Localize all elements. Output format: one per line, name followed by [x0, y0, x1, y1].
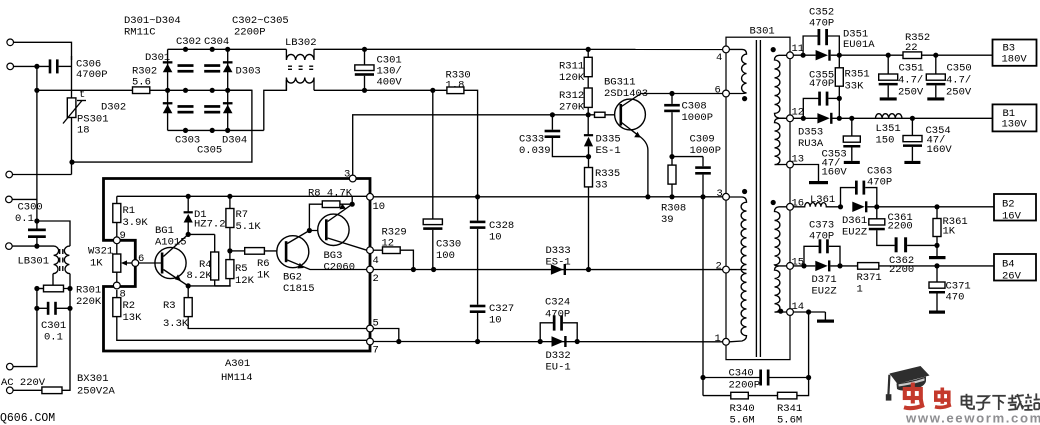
- phase dot S2 top: [771, 200, 776, 205]
- diode D304: [223, 105, 233, 114]
- zener D1: [187, 196, 189, 213]
- resistor R302: [133, 87, 150, 94]
- wire pin11 row: [793, 54, 815, 56]
- svg-text:R2: R2: [123, 300, 136, 312]
- node dots R301: [34, 286, 39, 291]
- svg-text:C308: C308: [682, 101, 707, 113]
- svg-text:RM11C: RM11C: [124, 27, 156, 39]
- wire collector node: [188, 285, 231, 287]
- svg-text:470P: 470P: [809, 78, 834, 90]
- wire D1 node to R4: [188, 233, 215, 235]
- wire top bus: [314, 48, 723, 50]
- capacitor C300: [28, 229, 46, 232]
- svg-text:R335: R335: [595, 168, 620, 180]
- svg-text:C309: C309: [690, 134, 715, 146]
- pin 9: [113, 237, 120, 244]
- svg-text:3.9K: 3.9K: [123, 217, 149, 229]
- svg-text:2: 2: [716, 261, 722, 273]
- resistor R6: [230, 250, 245, 252]
- output box B3: [993, 40, 1037, 66]
- BG2 emitter diag: [287, 260, 366, 270]
- transformer core: [755, 40, 757, 357]
- svg-text:W321: W321: [88, 246, 113, 258]
- svg-text:C330: C330: [436, 239, 461, 251]
- svg-text:3: 3: [344, 169, 350, 181]
- svg-text:A1015: A1015: [155, 237, 187, 249]
- primary winding P2 pins 3-2-1: [729, 197, 746, 342]
- node dot R7/R5/R6: [227, 248, 232, 253]
- wire pin10 line to B301 pin3: [373, 196, 722, 198]
- svg-text:6: 6: [715, 85, 721, 97]
- secondary winding S1 pins 11-12-13: [775, 55, 787, 164]
- pin 13 B301: [787, 161, 794, 168]
- watermark text 电子下载站: [962, 393, 1040, 410]
- svg-text:C1815: C1815: [283, 283, 315, 295]
- wire R2 to pin7 rail: [117, 317, 367, 341]
- svg-text:100: 100: [436, 250, 455, 262]
- svg-text:D333: D333: [546, 245, 571, 257]
- svg-text:8.2K: 8.2K: [187, 270, 213, 282]
- svg-text:10: 10: [489, 315, 502, 327]
- wire to R302: [37, 89, 133, 91]
- node dot R302 line: [34, 88, 39, 93]
- resistor R361: [936, 207, 938, 219]
- svg-text:10: 10: [489, 232, 502, 244]
- svg-text:18: 18: [77, 125, 90, 137]
- capacitor C328: [477, 197, 479, 221]
- svg-text:3: 3: [717, 188, 723, 200]
- terminal T7: [7, 387, 14, 394]
- pin 15 B301: [787, 263, 794, 270]
- resistor R7: [229, 196, 231, 208]
- svg-text:22: 22: [905, 42, 918, 54]
- svg-text:R301: R301: [76, 285, 101, 297]
- svg-text:1: 1: [857, 284, 863, 296]
- svg-text:26V: 26V: [1002, 271, 1022, 283]
- pin 4 B301: [723, 46, 730, 53]
- wire pin2 tap: [729, 269, 746, 271]
- wire pin12 row: [793, 117, 817, 119]
- svg-text:12K: 12K: [235, 275, 255, 287]
- node dot D1 bottom: [186, 232, 191, 237]
- resistor R340: [703, 395, 731, 397]
- wire bridge bottom to LB302 lower winding: [264, 80, 287, 130]
- svg-text:www.eeworm.com: www.eeworm.com: [905, 411, 1040, 425]
- pin 1 B301: [723, 338, 730, 345]
- node dots B3 row: [886, 53, 891, 58]
- svg-text:HM114: HM114: [221, 372, 253, 384]
- node dot R8 right: [350, 202, 355, 207]
- node dot AC return: [69, 160, 74, 165]
- capacitor C304: [204, 64, 220, 67]
- svg-text:RU3A: RU3A: [798, 138, 824, 150]
- node dot BG3 base: [307, 228, 312, 233]
- node dot BG1 collector: [186, 283, 191, 288]
- wire bridge mid row: [168, 89, 252, 91]
- wire left vertical bus: [36, 66, 38, 221]
- svg-text:150: 150: [876, 135, 895, 147]
- node dot C308 bottom: [669, 154, 674, 159]
- phase dot P2: [742, 189, 747, 194]
- BG1 collector down: [163, 270, 188, 286]
- svg-text:B2: B2: [1002, 199, 1015, 211]
- diode D351: [816, 50, 828, 60]
- svg-text:BX301: BX301: [77, 373, 109, 385]
- resistor R335: [588, 157, 590, 168]
- svg-text:2: 2: [373, 273, 379, 285]
- wire pin7 line to B301 pin1: [373, 341, 722, 343]
- svg-text:D361: D361: [842, 215, 867, 227]
- svg-text:C324: C324: [545, 297, 570, 309]
- capacitor C350: [935, 55, 937, 74]
- svg-text:1K: 1K: [90, 258, 103, 270]
- svg-text:C340: C340: [729, 368, 754, 380]
- node dots C301 0.1: [34, 306, 39, 311]
- svg-text:4.7/: 4.7/: [946, 75, 971, 87]
- svg-text:R351: R351: [845, 69, 870, 81]
- watermark graduation cap: [890, 366, 930, 384]
- svg-text:R340: R340: [730, 403, 755, 415]
- transformer B301 outline: [726, 37, 790, 359]
- phase dot S2 bottom: [778, 309, 783, 314]
- svg-text:C302~C305: C302~C305: [232, 15, 289, 27]
- node dot D335 anode: [586, 154, 591, 159]
- svg-text:180V: 180V: [1002, 54, 1028, 66]
- svg-text:0.1: 0.1: [44, 332, 63, 344]
- svg-text:BG311: BG311: [604, 77, 636, 89]
- pin 6 B301: [723, 90, 730, 97]
- svg-text:1.8: 1.8: [446, 80, 465, 92]
- BG311 emitter: [622, 123, 648, 197]
- diode D371: [815, 261, 827, 271]
- secondary winding S2 pins 16-15-14: [775, 207, 787, 312]
- svg-text:5.6M: 5.6M: [730, 415, 755, 425]
- capacitor C308: [669, 91, 674, 96]
- wire right column down to fuse: [62, 289, 70, 391]
- svg-text:L351: L351: [876, 123, 901, 135]
- capacitor C303: [178, 105, 194, 108]
- svg-text:470P: 470P: [867, 177, 892, 189]
- node dot D1 top: [186, 194, 191, 199]
- wire BG3 base: [309, 230, 326, 232]
- svg-text:250V: 250V: [898, 87, 924, 99]
- capacitor C362: [895, 237, 898, 252]
- svg-text:C351: C351: [899, 63, 924, 75]
- wire bottom bus: [314, 89, 447, 91]
- svg-text:ES-1: ES-1: [546, 257, 571, 269]
- wire left column down to AC terminal: [13, 289, 37, 367]
- svg-text:160V: 160V: [822, 167, 848, 179]
- diode D353: [817, 113, 829, 123]
- svg-text:R312: R312: [559, 90, 584, 102]
- svg-text:16: 16: [792, 198, 805, 210]
- svg-text:R6: R6: [257, 258, 270, 270]
- svg-text:D353: D353: [798, 127, 823, 139]
- wire bridge bottom rail: [168, 129, 264, 131]
- resistor R308: [671, 157, 673, 166]
- svg-text:14: 14: [792, 301, 805, 313]
- svg-text:B301: B301: [750, 26, 775, 38]
- svg-text:C301: C301: [41, 320, 66, 332]
- wire C340 left rail: [702, 197, 704, 396]
- svg-text:A301: A301: [225, 358, 250, 370]
- svg-text:R308: R308: [661, 203, 686, 215]
- svg-text:4: 4: [716, 52, 722, 64]
- pin 6: [132, 260, 139, 267]
- phase dot P1: [742, 96, 747, 101]
- resistor R341: [778, 392, 797, 399]
- wire PS301 down to AC node: [71, 118, 73, 175]
- capacitor C301 0.1: [37, 307, 48, 309]
- diode D303: [223, 64, 233, 73]
- watermark 虫 char 2: [935, 388, 951, 408]
- ferrite bead base: [595, 112, 606, 117]
- wire AC return to bridge: [72, 90, 252, 162]
- wire C306 right vertical down to PS301: [71, 56, 73, 98]
- svg-text:39: 39: [661, 214, 674, 226]
- svg-text:BG3: BG3: [324, 250, 343, 262]
- svg-text:BG2: BG2: [283, 272, 302, 284]
- diode D302: [163, 105, 173, 114]
- svg-text:250V: 250V: [946, 87, 972, 99]
- svg-text:R371: R371: [857, 272, 882, 284]
- node dots pin2 line: [411, 267, 416, 272]
- svg-text:4.7/: 4.7/: [898, 75, 923, 87]
- node dots bridge top: [183, 47, 188, 52]
- wire T2 to C306 node: [14, 65, 50, 67]
- node dots C301: [362, 47, 367, 52]
- svg-text:1000P: 1000P: [682, 112, 714, 124]
- pin 12 B301: [787, 115, 794, 122]
- thermistor PS301: [67, 98, 76, 118]
- svg-text:250V2A: 250V2A: [77, 386, 116, 398]
- wire pin5 to pin7 line: [373, 329, 398, 342]
- resistor R311: [586, 47, 591, 52]
- svg-text:R5: R5: [235, 263, 248, 275]
- svg-text:270K: 270K: [559, 102, 585, 114]
- terminal T2: [7, 63, 14, 70]
- svg-text:D302: D302: [101, 102, 126, 114]
- pin 16 B301: [787, 203, 794, 210]
- wire pin14 row and ground: [793, 311, 825, 313]
- pin 7: [367, 338, 374, 345]
- capacitor C353: [851, 118, 853, 136]
- svg-text:B4: B4: [1002, 259, 1015, 271]
- ground pin13: [793, 165, 818, 182]
- capacitor C351: [887, 55, 889, 74]
- svg-text:L361: L361: [810, 194, 835, 206]
- resistor R5: [229, 251, 231, 260]
- capacitor C305: [204, 105, 220, 108]
- svg-text:10: 10: [373, 201, 386, 213]
- svg-text:1: 1: [715, 333, 721, 345]
- wire C300 top to LB301 right: [37, 221, 70, 246]
- diode D361: [852, 202, 864, 212]
- capacitor C361: [876, 207, 878, 219]
- svg-text:BG1: BG1: [155, 225, 174, 237]
- resistor R4: [214, 234, 216, 252]
- svg-text:C2060: C2060: [324, 262, 356, 274]
- svg-text:470P: 470P: [545, 309, 570, 321]
- svg-text:13: 13: [792, 154, 805, 166]
- svg-text:R1: R1: [123, 205, 136, 217]
- capacitor C301 130/400V: [364, 49, 366, 65]
- resistor R352: [903, 52, 922, 59]
- node dots bridge mid: [165, 88, 170, 93]
- pin 4: [367, 247, 374, 254]
- svg-text:ES-1: ES-1: [596, 145, 621, 157]
- wire pin3 up and base line: [353, 115, 620, 175]
- node dots bridge bottom: [183, 128, 188, 133]
- resistor R2: [116, 290, 118, 298]
- svg-text:LB302: LB302: [285, 37, 317, 49]
- zener D335: [587, 115, 589, 136]
- wire bridge right rail: [227, 49, 229, 130]
- svg-text:2200: 2200: [888, 221, 913, 233]
- svg-text:D301~D304: D301~D304: [124, 15, 181, 27]
- wire T5 to LB301: [12, 245, 53, 247]
- wire pin2 line: [373, 269, 722, 271]
- diode D333: [551, 264, 563, 274]
- svg-text:13K: 13K: [123, 312, 143, 324]
- svg-text:130V: 130V: [1002, 119, 1028, 131]
- fuse BX301: [42, 387, 62, 394]
- node dot C330 column: [430, 88, 435, 93]
- svg-text:LB301: LB301: [18, 256, 50, 268]
- capacitor C330: [432, 90, 434, 219]
- svg-text:EU01A: EU01A: [843, 39, 875, 51]
- BG3 emitter diag up: [328, 204, 353, 221]
- wire bridge top rail: [168, 48, 287, 50]
- resistor R1: [113, 204, 121, 223]
- phase dot S1: [771, 47, 776, 52]
- svg-text:9: 9: [120, 230, 126, 242]
- node dot emitter on pin10 line: [645, 194, 650, 199]
- node dot R7 top: [227, 194, 232, 199]
- svg-text:33K: 33K: [845, 81, 865, 93]
- svg-text:C300: C300: [18, 202, 43, 214]
- capacitor C333: [550, 112, 555, 117]
- svg-text:160V: 160V: [927, 144, 953, 156]
- wire T1 to corner: [14, 42, 72, 60]
- terminal T6: [7, 363, 14, 370]
- svg-text:0.1: 0.1: [15, 213, 34, 225]
- svg-text:C328: C328: [489, 220, 514, 232]
- output box B4: [994, 254, 1036, 281]
- svg-text:R7: R7: [236, 209, 249, 221]
- svg-text:5.6M: 5.6M: [777, 415, 802, 425]
- svg-text:0.039: 0.039: [519, 145, 551, 157]
- wire bridge left rail: [167, 49, 169, 130]
- output box B2: [994, 194, 1036, 221]
- svg-text:1000P: 1000P: [690, 145, 722, 157]
- capacitor C327: [470, 305, 486, 308]
- resistor R301: [37, 288, 70, 290]
- svg-text:C327: C327: [489, 303, 514, 315]
- output box B1: [993, 104, 1037, 131]
- svg-text:C304: C304: [204, 36, 229, 48]
- pin 3: [349, 175, 356, 182]
- pin 11 B301: [787, 52, 794, 59]
- svg-text:470P: 470P: [809, 18, 834, 30]
- svg-text:5.6: 5.6: [132, 77, 151, 89]
- resistor R351: [838, 55, 840, 68]
- svg-text:EU-1: EU-1: [546, 362, 571, 374]
- svg-text:5: 5: [373, 318, 379, 330]
- resistor R330: [447, 87, 464, 94]
- svg-text:33: 33: [595, 180, 608, 192]
- capacitor C340: [700, 375, 705, 380]
- primary winding P1 pins 4-6: [729, 49, 746, 93]
- capacitor C354: [911, 118, 913, 135]
- svg-text:C305: C305: [197, 145, 222, 157]
- resistor R3: [187, 286, 189, 298]
- terminal T5: [6, 243, 13, 250]
- svg-text:4700P: 4700P: [76, 69, 108, 81]
- svg-text:EU2Z: EU2Z: [842, 227, 867, 239]
- pin 3 B301: [723, 193, 730, 200]
- capacitor C309: [672, 156, 703, 158]
- diode D332: [538, 339, 543, 344]
- pin 14 B301: [787, 309, 794, 316]
- svg-text:C333: C333: [519, 134, 544, 146]
- inductor L351: [876, 114, 902, 119]
- svg-text:2200P: 2200P: [234, 27, 266, 39]
- transistor BG3: [318, 214, 349, 245]
- terminal T4: [6, 196, 13, 203]
- wire R330 right corner down: [464, 90, 478, 197]
- node dot C300 bottom: [34, 244, 39, 249]
- svg-text:C302: C302: [176, 36, 201, 48]
- capacitor C371: [936, 266, 938, 282]
- svg-text:470: 470: [946, 292, 965, 304]
- svg-text:HZ7.2: HZ7.2: [194, 219, 226, 231]
- svg-text:16V: 16V: [1002, 211, 1022, 223]
- svg-text:2200P: 2200P: [729, 380, 761, 392]
- pin 10: [367, 193, 374, 200]
- capacitor C302: [178, 64, 194, 67]
- resistor R371: [858, 263, 879, 270]
- capacitor C306: [49, 59, 52, 73]
- svg-text:120K: 120K: [559, 72, 585, 84]
- svg-text:400V: 400V: [377, 77, 403, 89]
- resistor R312: [587, 77, 589, 88]
- svg-text:D301: D301: [145, 52, 170, 64]
- pin 2: [367, 266, 374, 273]
- svg-text:470P: 470P: [809, 231, 834, 243]
- svg-text:R3: R3: [163, 300, 176, 312]
- wire pin15 row: [793, 265, 815, 267]
- svg-text:D304: D304: [222, 135, 247, 147]
- BG1 emitter up to D1 node: [163, 234, 188, 256]
- svg-text:3.3K: 3.3K: [163, 318, 189, 330]
- internal top rail wire: [117, 195, 367, 197]
- node dot C306 left: [34, 64, 39, 69]
- terminal T3: [6, 171, 13, 178]
- pin 2 B301: [723, 266, 730, 273]
- watermark 虫 char 1: [904, 383, 924, 409]
- svg-text:Q606.COM: Q606.COM: [0, 412, 55, 425]
- wire LB301 bottoms: [37, 274, 53, 289]
- A301 box outline: [104, 179, 371, 352]
- svg-text:1K: 1K: [943, 226, 956, 238]
- svg-text:C350: C350: [947, 63, 972, 75]
- svg-text:R341: R341: [777, 403, 802, 415]
- BG2 collector diag: [287, 231, 309, 244]
- pin 8: [113, 282, 120, 289]
- wire T4 to bus: [12, 198, 37, 200]
- BG3 collector diag down: [328, 238, 367, 250]
